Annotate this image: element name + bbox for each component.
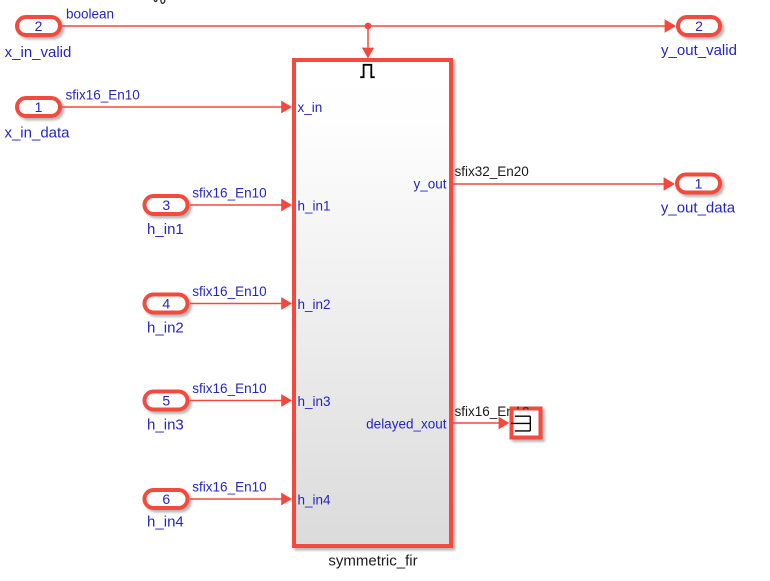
arrowhead trigger	[362, 48, 374, 59]
svg-text:x_in: x_in	[298, 100, 323, 115]
svg-text:h_in2: h_in2	[147, 320, 184, 337]
arrowhead h_in2	[281, 297, 292, 310]
wire h_in3	[190, 400, 282, 402]
svg-text:symmetric_fir: symmetric_fir	[328, 552, 417, 569]
svg-text:5: 5	[162, 393, 170, 409]
svg-text:6: 6	[162, 491, 170, 507]
inport 4 h_in2	[145, 295, 188, 313]
arrowhead x_in	[281, 101, 292, 114]
svg-text:sfix16_En10: sfix16_En10	[192, 381, 266, 396]
wire trigger drop	[367, 26, 369, 48]
svg-text:h_in1: h_in1	[147, 221, 184, 238]
svg-text:h_in4: h_in4	[298, 492, 332, 507]
arrowhead h_in1	[281, 199, 292, 212]
svg-text:h_in4: h_in4	[147, 514, 184, 531]
svg-text:boolean: boolean	[66, 6, 114, 21]
trigger port icon	[360, 65, 375, 77]
svg-text:h_in1: h_in1	[298, 199, 331, 214]
svg-text:sfix16_En10: sfix16_En10	[192, 480, 266, 495]
wire delayed_xout	[453, 422, 499, 424]
svg-text:3: 3	[162, 197, 170, 213]
inport 2 x_in_valid	[17, 17, 60, 35]
outport 1 y_out_data	[677, 175, 720, 193]
arrowhead y_out_data	[664, 177, 675, 190]
label remnant 10 over border	[518, 406, 528, 409]
svg-text:sfix16_En10: sfix16_En10	[192, 284, 266, 299]
svg-text:h_in3: h_in3	[298, 394, 331, 409]
inport 5 h_in3	[145, 392, 188, 410]
wire h_in1	[190, 204, 282, 206]
arrowhead h_in3	[281, 394, 292, 407]
svg-text:delayed_xout: delayed_xout	[366, 416, 447, 431]
wire x_in	[62, 106, 282, 108]
svg-text:h_in3: h_in3	[147, 417, 184, 434]
wire x_in_valid -> y_out_valid	[62, 25, 667, 27]
arrowhead y_out_valid	[665, 19, 676, 32]
arrowhead delayed_xout	[499, 417, 510, 430]
wire h_in4	[190, 498, 282, 500]
inport 3 h_in1	[145, 196, 188, 214]
svg-text:2: 2	[695, 18, 703, 34]
svg-text:2: 2	[35, 18, 43, 34]
svg-text:h_in2: h_in2	[298, 297, 331, 312]
junction dot	[365, 23, 372, 30]
svg-text:x_in_valid: x_in_valid	[5, 44, 72, 61]
svg-text:y_out_valid: y_out_valid	[661, 42, 737, 59]
svg-text:sfix32_En20: sfix32_En20	[455, 164, 529, 179]
svg-text:1: 1	[35, 99, 43, 115]
svg-text:y_out_data: y_out_data	[661, 200, 736, 217]
svg-text:sfix16_En10: sfix16_En10	[192, 186, 266, 201]
annotation fragment (clipped text at top edge)	[154, 0, 165, 3]
svg-text:x_in_data: x_in_data	[4, 125, 70, 142]
outport 2 y_out_valid	[678, 17, 720, 35]
subsystem block symmetric_fir	[294, 60, 451, 546]
svg-text:1: 1	[695, 176, 703, 192]
svg-text:y_out: y_out	[413, 177, 446, 192]
svg-text:4: 4	[162, 296, 170, 312]
wire y_out	[453, 183, 665, 185]
inport 6 h_in4	[145, 490, 188, 508]
wire h_in2	[190, 303, 282, 305]
terminator block (delayed_xout sink)	[512, 409, 541, 438]
inport 1 x_in_data	[17, 98, 60, 116]
arrowhead h_in4	[281, 493, 292, 506]
svg-text:sfix16_En10: sfix16_En10	[66, 88, 140, 103]
terminator icon	[511, 416, 530, 431]
